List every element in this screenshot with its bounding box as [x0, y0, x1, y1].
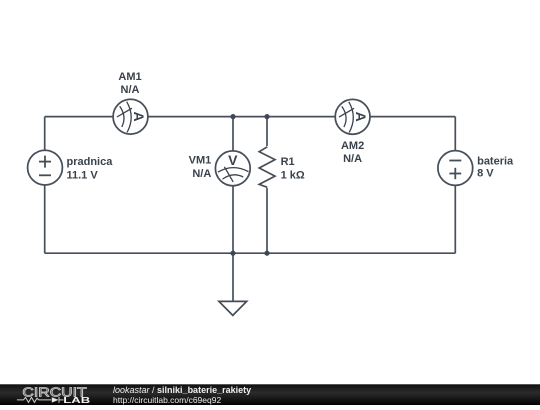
- voltmeter VM1 body circle: [215, 151, 250, 186]
- ammeter AM2: [335, 99, 370, 165]
- voltage source V2 minus sign: [449, 160, 461, 162]
- wire right vertical through V2: [454, 117, 456, 254]
- footer url line: [113, 396, 221, 405]
- voltage source V2 bateria: [438, 151, 514, 186]
- ammeter AM1 body circle: [113, 99, 148, 134]
- ammeter AM1 meter face and letter A: [117, 102, 147, 133]
- node junction top VM1: [230, 114, 235, 119]
- svg-text:N/A: N/A: [121, 84, 140, 96]
- svg-text:R1: R1: [281, 156, 295, 168]
- footer title line lookastar / silniki_baterie_rakiety: [113, 386, 251, 395]
- svg-text:AM2: AM2: [341, 140, 364, 152]
- ammeter AM2 body circle: [335, 99, 370, 134]
- voltage source V1 minus sign: [39, 174, 51, 176]
- ammeter AM2 meter face and letter A: [339, 102, 369, 133]
- svg-text:A: A: [353, 112, 369, 122]
- node junction top R1: [264, 114, 269, 119]
- ground: [219, 301, 247, 315]
- wire VM1 branch vertical: [232, 117, 234, 254]
- svg-text:bateria: bateria: [477, 156, 514, 168]
- logo diode cathode bar and wire: [59, 397, 64, 403]
- wire ground stem: [232, 253, 234, 301]
- svg-text:pradnica: pradnica: [67, 156, 114, 168]
- svg-text:V: V: [228, 152, 238, 168]
- logo diode triangle: [52, 397, 59, 402]
- resistor R1: [258, 146, 305, 188]
- wire left vertical through V1: [44, 117, 46, 254]
- voltmeter VM1: [189, 151, 251, 186]
- voltage source V1 plus sign: [39, 156, 51, 168]
- voltage source V1 pradnica: [28, 150, 114, 185]
- svg-text:N/A: N/A: [192, 168, 211, 180]
- svg-text:8 V: 8 V: [477, 168, 494, 180]
- wire R1 branch vertical: [266, 117, 268, 254]
- voltage source V1 body circle: [28, 150, 63, 185]
- CircuitLab logo: [0, 384, 110, 405]
- svg-text:1 kΩ: 1 kΩ: [281, 170, 305, 182]
- svg-text:VM1: VM1: [189, 155, 212, 167]
- node junction bottom VM1/ground: [230, 251, 235, 256]
- svg-text:LAB: LAB: [63, 395, 90, 405]
- svg-text:A: A: [131, 112, 147, 122]
- svg-text:N/A: N/A: [343, 153, 362, 165]
- logo resistor zigzag: [17, 397, 51, 402]
- svg-text:AM1: AM1: [118, 71, 141, 83]
- voltage source V2 plus sign: [449, 168, 461, 179]
- ammeter AM1: [113, 71, 148, 134]
- node junction bottom R1: [264, 251, 269, 256]
- svg-text:11.1 V: 11.1 V: [67, 170, 99, 182]
- wire bottom horizontal net: [45, 252, 456, 254]
- voltmeter VM1 meter face and letter V: [218, 152, 249, 182]
- voltage source V2 body circle: [438, 151, 473, 186]
- wire top horizontal net from V1 through AM1, nodes, AM2 to V2: [45, 116, 456, 118]
- footer bar: [0, 384, 540, 405]
